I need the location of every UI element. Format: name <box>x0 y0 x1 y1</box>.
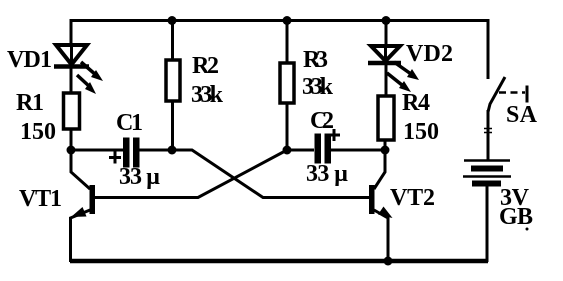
svg-text:R2: R2 <box>192 53 219 79</box>
wire rail to R3 <box>286 20 289 64</box>
wire VD1 to R1 <box>70 67 73 94</box>
wire VD2 to R4 <box>385 64 388 97</box>
svg-text:R4: R4 <box>402 90 430 116</box>
svg-text:33k: 33k <box>191 82 224 108</box>
node top rail VD2 junction dot <box>382 16 391 25</box>
node B junction dot <box>168 146 177 155</box>
node A junction dot <box>67 146 76 155</box>
svg-text:GB: GB <box>499 204 533 230</box>
node D junction dot <box>283 146 292 155</box>
label R1 <box>16 90 44 116</box>
svg-text:VD1: VD1 <box>7 47 52 73</box>
label C2 <box>310 108 334 134</box>
transistor VT2 <box>369 150 393 262</box>
wire top rail <box>70 19 488 22</box>
label 3V <box>500 185 530 211</box>
label 150 (R1 value) <box>20 119 56 145</box>
wire node A to C1 <box>71 149 123 152</box>
label 33u (C1 value) <box>119 164 160 190</box>
label VT2 <box>390 185 435 211</box>
label VT1 <box>19 186 62 212</box>
svg-text:C1: C1 <box>116 110 143 136</box>
svg-text:33 µ: 33 µ <box>306 161 348 187</box>
wire R4 to node C <box>384 140 387 150</box>
stray ink dot <box>526 228 529 231</box>
wire rail to VD2 <box>385 20 388 47</box>
resistor R3 <box>280 63 294 103</box>
resistor R2 <box>166 60 180 101</box>
svg-text:150: 150 <box>403 119 439 145</box>
node C junction dot <box>381 146 390 155</box>
wire battery to bottom rail <box>486 186 489 262</box>
bottom rail wire <box>70 259 488 264</box>
LED VD2 <box>368 46 419 92</box>
wire left column top (rail to VD1) <box>70 19 73 46</box>
svg-text:VT2: VT2 <box>390 185 435 211</box>
wire C2 to node C <box>331 149 385 152</box>
svg-text:150: 150 <box>20 119 56 145</box>
wire rail to R2 <box>171 20 174 61</box>
svg-text:VT1: VT1 <box>19 186 62 212</box>
node top rail R2 junction dot <box>168 16 177 25</box>
LED VD1 <box>54 45 103 94</box>
battery GB <box>463 161 511 184</box>
resistor R4 <box>378 96 394 140</box>
svg-text:33 µ: 33 µ <box>119 164 160 190</box>
node top rail R3 junction dot <box>283 16 292 25</box>
label 33k (R2 value) <box>191 82 224 108</box>
svg-text:C2: C2 <box>310 108 334 134</box>
label 150 (R4 value) <box>403 119 439 145</box>
wire switch to battery <box>487 110 490 160</box>
node VT2 emitter bottom junction dot <box>384 257 393 266</box>
svg-text:R3: R3 <box>303 47 328 73</box>
wire C1 to node B <box>139 149 173 152</box>
wire node D to VT1 base (cross coupling) <box>94 150 287 198</box>
wire R2 to node B <box>171 101 174 150</box>
label SA <box>506 102 538 128</box>
wire node B to VT2 base (cross coupling) <box>172 150 369 198</box>
svg-text:33k: 33k <box>302 74 334 100</box>
svg-text:VD2: VD2 <box>406 41 453 67</box>
label VD2 <box>406 41 453 67</box>
capacitor C1 <box>109 138 140 168</box>
switch SA <box>484 77 527 133</box>
label 33k (R3 value) <box>302 74 334 100</box>
label R2 <box>192 53 219 79</box>
label GB <box>499 204 533 230</box>
capacitor C2 <box>315 129 341 164</box>
label VD1 <box>7 47 52 73</box>
resistor R1 <box>64 93 80 129</box>
label C1 <box>116 110 143 136</box>
svg-text:R1: R1 <box>16 90 44 116</box>
label R4 <box>402 90 430 116</box>
svg-text:SA: SA <box>506 102 538 128</box>
label R3 <box>303 47 328 73</box>
wire right column to switch <box>487 19 490 79</box>
label 33u (C2 value) <box>306 161 348 187</box>
wire R3 to node D <box>286 103 289 150</box>
wire node D to C2 <box>287 149 314 152</box>
wire R1 to node A <box>70 129 73 151</box>
transistor VT1 <box>71 150 96 262</box>
